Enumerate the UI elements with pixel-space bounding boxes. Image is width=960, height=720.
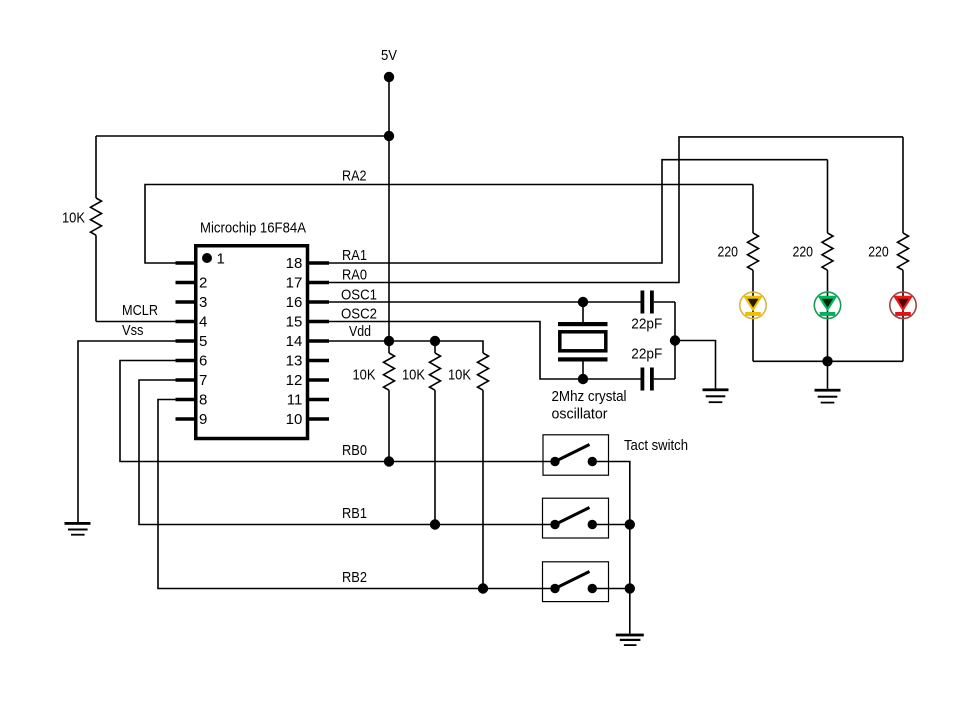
pin 3 stub: [176, 300, 195, 304]
pin 11 stub: [309, 398, 329, 402]
pin 1 indicator dot: [202, 253, 212, 263]
svg-text:10K: 10K: [402, 367, 425, 384]
wire caps common vertical x=675: [674, 302, 676, 379]
svg-text:10K: 10K: [62, 210, 85, 227]
svg-text:220: 220: [793, 244, 814, 261]
pin 15 stub: [309, 320, 329, 324]
svg-text:oscillator: oscillator: [552, 406, 608, 423]
svg-text:RA1: RA1: [342, 247, 367, 264]
wire RA2 pin1 route: [145, 185, 753, 264]
svg-text:220: 220: [718, 244, 739, 261]
svg-text:13: 13: [286, 353, 303, 370]
pin 5 stub: [176, 339, 195, 343]
pin 16 stub: [309, 300, 329, 304]
junction 5V terminal: [384, 72, 394, 82]
wire RA1 pin18 route: [326, 160, 828, 263]
switch SW3 (RB2): [543, 562, 609, 602]
svg-text:11: 11: [287, 392, 303, 409]
wire OSC1 pin16 to C1: [326, 301, 641, 303]
junction caps / ground branch: [670, 335, 680, 345]
wire RA1 to R6 top lead: [827, 160, 829, 233]
svg-text:Vss: Vss: [122, 322, 144, 339]
wire crystal ground branch: [675, 341, 716, 389]
pin 13 stub: [309, 359, 329, 363]
svg-text:10K: 10K: [353, 367, 376, 384]
wire R1 top lead x=96: [95, 136, 97, 198]
svg-text:2Mhz crystal: 2Mhz crystal: [552, 388, 627, 405]
wire SW1 output to ground rail: [592, 462, 630, 634]
ground switches: [616, 634, 644, 646]
svg-text:OSC2: OSC2: [341, 305, 377, 322]
pin 9 stub: [176, 417, 195, 421]
svg-text:MCLR: MCLR: [122, 302, 158, 319]
svg-text:8: 8: [199, 392, 207, 409]
crystal X1 2Mhz: [558, 322, 608, 362]
svg-text:5: 5: [199, 333, 207, 350]
wire LED common rail y=361.3: [753, 360, 903, 362]
svg-text:7: 7: [199, 372, 207, 389]
wire crystal bottom stub: [582, 362, 584, 380]
pin 17 stub: [309, 281, 329, 285]
wire crystal top stub: [582, 302, 584, 322]
wire red LED through-lead: [902, 270, 904, 361]
svg-text:12: 12: [286, 372, 303, 389]
wire Vss pin5 to ground: [78, 341, 179, 523]
junction Vdd / R3: [430, 336, 440, 346]
wire 5V horizontal y=136 to R1: [96, 135, 389, 137]
wire Vdd pin14 to R4: [326, 341, 483, 353]
svg-text:22pF: 22pF: [631, 316, 662, 333]
pin 6 stub: [176, 359, 195, 363]
svg-text:17: 17: [286, 275, 303, 292]
ground Vss (left): [65, 522, 91, 536]
IC U1 Microchip 16F84A body: [196, 246, 308, 439]
resistor R4 10K: [478, 353, 489, 390]
svg-text:Microchip 16F84A: Microchip 16F84A: [200, 220, 306, 237]
wire R2 bottom lead to RB0: [388, 390, 390, 461]
pin 14 stub: [309, 339, 329, 343]
svg-text:Vdd: Vdd: [349, 323, 371, 340]
wire C2 right lead: [654, 378, 675, 380]
svg-text:2: 2: [199, 275, 207, 292]
pin 2 stub: [176, 281, 195, 285]
svg-text:3: 3: [199, 294, 207, 311]
wire yellow LED through-lead: [752, 270, 754, 361]
svg-text:10: 10: [286, 411, 303, 428]
wire SW3 output: [592, 588, 630, 590]
pin 8 stub: [176, 398, 195, 402]
pin 7 stub: [176, 378, 195, 382]
svg-text:16: 16: [286, 294, 303, 311]
junction Vdd / R2: [384, 336, 394, 346]
wire RA2 to R5 top lead: [752, 185, 754, 234]
wire 5V vertical rail x=389: [388, 77, 390, 341]
wire R3 bottom lead to RB1: [434, 390, 436, 524]
svg-text:Tact switch: Tact switch: [624, 437, 688, 454]
svg-text:22pF: 22pF: [631, 346, 662, 363]
junction RB1 / R3: [430, 519, 440, 529]
svg-text:9: 9: [199, 411, 207, 428]
wire RA0 to R7 top lead: [902, 137, 904, 233]
svg-text:RB2: RB2: [342, 569, 367, 586]
resistor R3 10K: [430, 353, 441, 390]
resistor R7 220: [898, 233, 909, 270]
LED D2 green: [814, 292, 840, 318]
svg-text:6: 6: [199, 353, 207, 370]
junction LED rail / ground: [822, 356, 832, 366]
svg-text:18: 18: [286, 255, 303, 272]
junction RB2 / R4: [478, 583, 488, 593]
junction SW2 output rail: [625, 519, 635, 529]
wire RB0 pin6 route: [120, 361, 555, 462]
switch SW1 (RB0): [543, 435, 609, 475]
svg-text:5V: 5V: [381, 47, 397, 64]
wire C1 right lead: [654, 301, 675, 303]
wire green LED through-lead: [827, 270, 829, 361]
LED D1 yellow: [740, 292, 766, 318]
svg-text:4: 4: [199, 314, 207, 331]
switch SW2 (RB1): [543, 498, 609, 538]
wire RB1 pin7 route: [139, 380, 555, 525]
junction OSC2 / crystal bottom: [578, 374, 588, 384]
wire OSC2 pin15 route: [326, 322, 641, 380]
svg-text:RA2: RA2: [342, 168, 367, 185]
svg-text:15: 15: [286, 314, 303, 331]
junction OSC1 / crystal top: [578, 297, 588, 307]
junction SW3 output rail: [625, 583, 635, 593]
wire R1 bottom lead to MCLR: [95, 235, 97, 321]
svg-text:1: 1: [217, 251, 225, 268]
svg-text:RB1: RB1: [342, 505, 367, 522]
wire MCLR y=321.5: [96, 321, 179, 323]
resistor R2 10K: [384, 353, 395, 390]
wire RA0 pin17 route: [326, 137, 903, 283]
pin 18 stub: [309, 261, 329, 265]
svg-text:RB0: RB0: [342, 442, 367, 459]
wire R3 top lead: [434, 341, 436, 353]
capacitor C1 22pF plates: [641, 291, 654, 314]
wire SW2 output: [592, 524, 630, 526]
resistor R6 220: [822, 233, 833, 270]
svg-text:RA0: RA0: [342, 267, 367, 284]
resistor R1 10K: [91, 198, 102, 235]
junction 5V rail / R1 branch: [384, 131, 394, 141]
ground LEDs: [815, 389, 841, 404]
svg-text:14: 14: [286, 333, 303, 350]
pin 10 stub: [309, 417, 329, 421]
resistor R5 220: [748, 233, 759, 270]
wire RB2 pin8 route: [158, 400, 555, 589]
LED D3 red: [890, 292, 916, 318]
svg-text:10K: 10K: [448, 367, 471, 384]
pin 1 stub: [176, 261, 195, 265]
pin 12 stub: [309, 378, 329, 382]
wire LED ground stub: [827, 361, 829, 389]
junction RB0 / R2: [384, 456, 394, 466]
svg-text:220: 220: [868, 244, 889, 261]
capacitor C2 22pF plates: [641, 368, 654, 391]
pin 4 stub: [176, 320, 195, 324]
ground crystal: [703, 388, 729, 403]
svg-text:OSC1: OSC1: [341, 286, 377, 303]
wire R4 bottom lead to RB2: [482, 390, 484, 588]
wire R2 top lead: [388, 341, 390, 353]
